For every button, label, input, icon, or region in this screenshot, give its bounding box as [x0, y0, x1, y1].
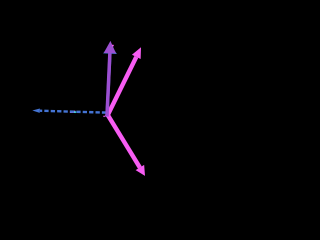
vector b (dashed blue, pointing left) [32, 109, 106, 113]
vector v3 (magenta, pointing down-right) [108, 115, 145, 176]
cyan marker dot on dashed line [74, 111, 76, 113]
vector u (blue, up, hidden behind purple) [103, 44, 117, 117]
hidden magenta vector tip under dashed line [70, 111, 75, 113]
magenta cap corner dot near origin [103, 116, 105, 118]
vector v2 (magenta, pointing up-right) [107, 47, 141, 117]
vector v1 (purple, pointing up) [104, 41, 116, 117]
vector diagram on black background [0, 0, 222, 224]
hidden magenta vector tip peeking at purple head edge [112, 45, 114, 47]
